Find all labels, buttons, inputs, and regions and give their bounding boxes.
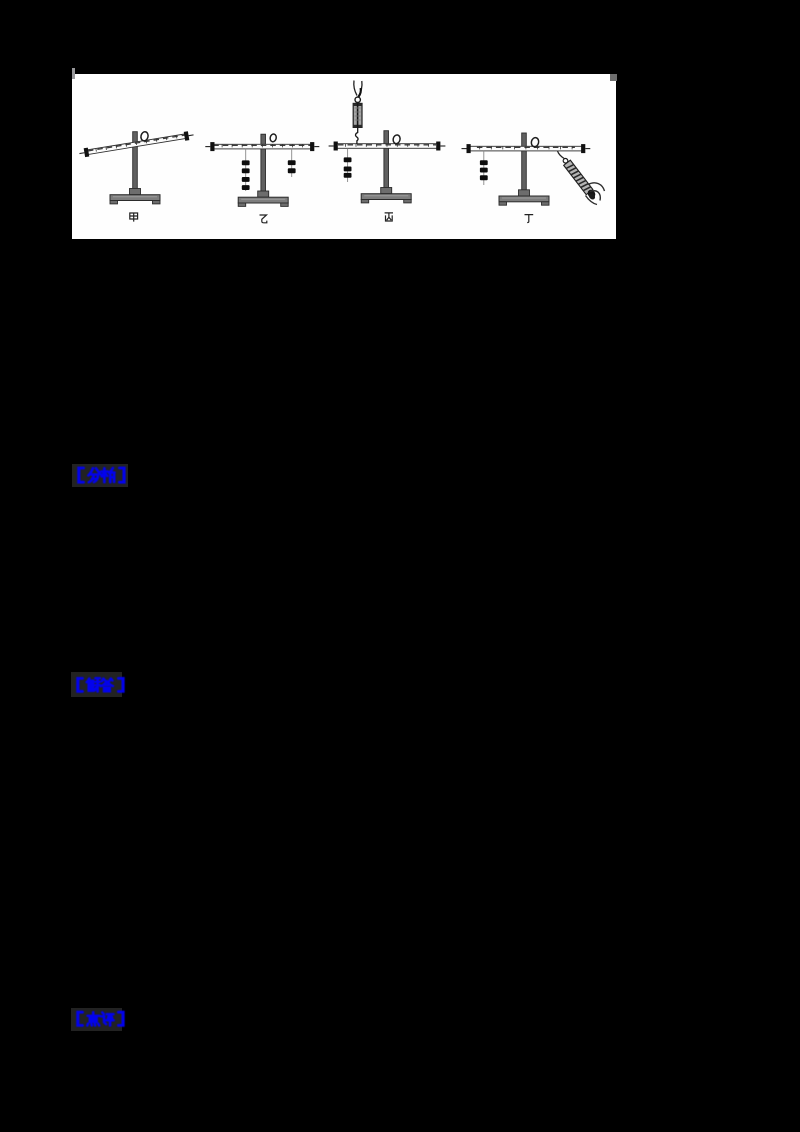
highlight box 3 (71, 1008, 122, 1031)
spring scale bing: support prongs (354, 81, 362, 98)
beam jia (tilted ruler) (79, 130, 195, 158)
spring scale bing: ring (355, 97, 360, 102)
label yi (CJK drawn) (260, 215, 267, 223)
pivot label O ding (530, 137, 539, 148)
left weights bing (3) (344, 157, 352, 162)
label ding (CJK drawn) (525, 215, 534, 223)
stand jia (110, 132, 160, 204)
beam ding (462, 144, 591, 153)
blue label 1: fen-xi in brackets (drawn) (72, 464, 130, 487)
left weights ding (3) (480, 160, 488, 165)
spring scale bing: body (353, 103, 362, 127)
pivot label O jia (140, 131, 149, 142)
selection handle top-left (72, 68, 75, 79)
selection handle top-right (610, 74, 617, 81)
blue label 2: jie-da in brackets (drawn) (71, 672, 129, 697)
left weight string yi (245, 149, 247, 191)
hand pulling ding (586, 183, 605, 205)
spring scale ding: hook on beam (558, 151, 565, 159)
pivot label O yi (269, 133, 277, 142)
stand ding (499, 133, 549, 205)
highlight box 2 (71, 672, 122, 697)
right weights yi (2) (288, 160, 296, 165)
left weight string ding (483, 151, 485, 185)
label jia (CJK drawn) (130, 213, 138, 222)
right weight string yi (291, 149, 293, 177)
highlight box 1 (analysis label) (72, 464, 128, 487)
blue label 3: dian-ping in brackets (drawn) (71, 1008, 129, 1031)
label bing (CJK drawn) (385, 213, 393, 221)
figure: four lever-balance experiment setups (72, 74, 616, 239)
spring scale bing: lower hook to beam (356, 127, 359, 143)
beam bing (329, 142, 446, 151)
pivot label O bing (392, 134, 401, 144)
stand yi (238, 134, 288, 206)
beam yi (205, 142, 319, 151)
spring scale ding: body (diagonal with coils) (561, 156, 597, 200)
left weight string bing (347, 148, 349, 182)
stand bing (361, 131, 411, 203)
left weights yi (4) (242, 160, 250, 165)
